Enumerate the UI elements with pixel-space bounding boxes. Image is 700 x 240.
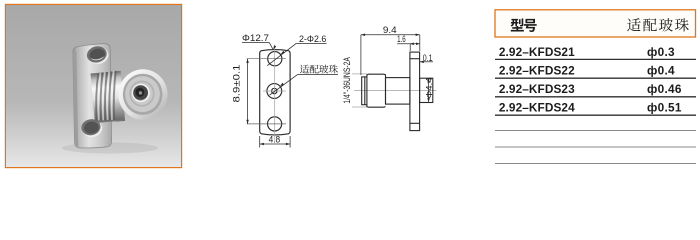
svg-text:9.4: 9.4 xyxy=(383,25,397,36)
photo frame xyxy=(6,5,182,168)
Phi4.4 dim xyxy=(428,78,430,102)
svg-text:2.92–KFDS24: 2.92–KFDS24 xyxy=(499,101,575,115)
svg-text:2.92–KFDS21: 2.92–KFDS21 xyxy=(499,45,575,59)
svg-text:2.92–KFDS23: 2.92–KFDS23 xyxy=(499,82,575,96)
bead boss xyxy=(420,78,433,102)
svg-text:0.1: 0.1 xyxy=(423,53,433,63)
4.8 dim xyxy=(260,136,290,148)
soft shadow under part xyxy=(62,143,158,154)
svg-text:ф0.51: ф0.51 xyxy=(647,101,682,115)
thread grooves xyxy=(96,71,116,121)
adapter-bead leader xyxy=(270,75,339,96)
flange plate xyxy=(73,44,112,148)
barrel xyxy=(91,71,126,124)
bottom hole xyxy=(268,117,282,131)
top hole xyxy=(85,44,110,67)
bottom hole xyxy=(80,117,103,138)
barrel xyxy=(367,74,386,107)
centerlines xyxy=(263,45,286,141)
svg-text:4.8: 4.8 xyxy=(269,135,281,145)
body xyxy=(386,78,410,105)
bead outer circle xyxy=(267,84,282,99)
adapter-bead CJK label xyxy=(300,65,309,74)
photo background xyxy=(6,5,181,167)
9.4 dim xyxy=(361,35,420,75)
flange outline xyxy=(260,50,290,135)
svg-text:ф0.3: ф0.3 xyxy=(647,45,675,59)
svg-text:1.6: 1.6 xyxy=(397,34,406,44)
svg-text:Φ12.7: Φ12.7 xyxy=(242,32,269,43)
svg-text:2-Φ2.6: 2-Φ2.6 xyxy=(299,33,326,44)
thread crest thin lines xyxy=(352,73,367,75)
centerline xyxy=(354,90,437,92)
svg-text:ф0.46: ф0.46 xyxy=(647,82,682,96)
flange left edge face xyxy=(73,51,78,148)
8.9 dim xyxy=(247,59,286,124)
flange xyxy=(410,52,420,131)
face rings xyxy=(118,69,167,120)
svg-text:8.9±0.1: 8.9±0.1 xyxy=(230,65,241,103)
front ring xyxy=(362,77,367,105)
svg-text:2.92–KFDS22: 2.92–KFDS22 xyxy=(499,64,575,78)
top hole xyxy=(268,52,282,66)
svg-text:Φ4.4: Φ4.4 xyxy=(425,77,434,99)
bead inner circle xyxy=(272,88,277,93)
svg-text:1/4″-36UNS-2A: 1/4″-36UNS-2A xyxy=(342,57,352,104)
svg-text:ф0.4: ф0.4 xyxy=(647,64,675,78)
